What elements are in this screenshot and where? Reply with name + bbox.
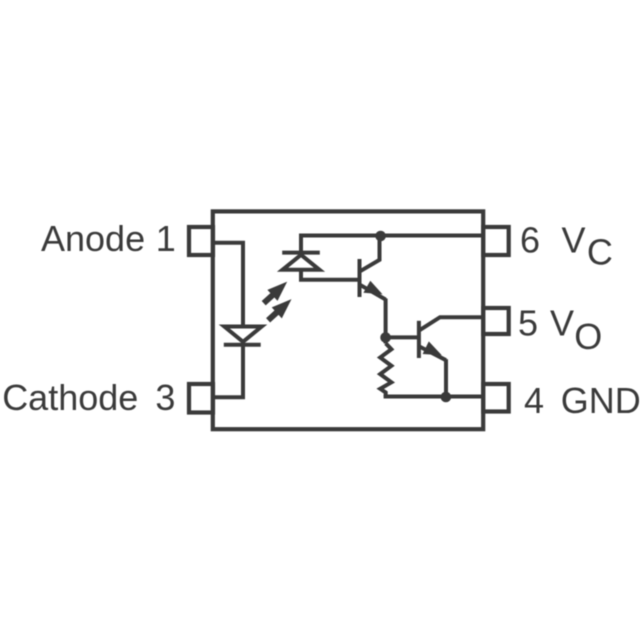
IC body outline — [213, 211, 483, 429]
wire: anode pin to LED anode — [213, 243, 243, 327]
svg-text:6: 6 — [520, 220, 540, 261]
pin 5 box (VO) — [483, 308, 509, 334]
light arrow 2 — [268, 299, 291, 320]
svg-text:5: 5 — [518, 302, 538, 343]
wire: Q2 emitter down to GND rail — [444, 359, 448, 396]
svg-text:V: V — [562, 220, 586, 261]
svg-text:O: O — [574, 316, 602, 357]
pin 1 box (anode) — [189, 227, 213, 255]
wire: photodiode anode to Q1 base — [301, 270, 358, 280]
wire: Q1 emitter down to node — [384, 299, 388, 344]
svg-text:C: C — [587, 232, 613, 273]
LED D1 (emitter diode) — [224, 327, 262, 345]
svg-text:V: V — [550, 302, 574, 343]
junction dot on GND rail — [441, 392, 452, 403]
svg-text:Anode: Anode — [41, 218, 145, 259]
junction dot on VC rail — [375, 231, 386, 242]
GND bottom rail wire — [384, 395, 483, 399]
photodiode D2 — [282, 253, 320, 270]
svg-text:3: 3 — [155, 377, 175, 418]
pin 6 box (VC) — [483, 227, 509, 255]
label 6 VC — [520, 220, 613, 273]
VC top rail wire — [301, 236, 483, 252]
svg-text:1: 1 — [156, 218, 176, 259]
light arrow 1 — [264, 282, 288, 304]
label 5 VO — [518, 302, 602, 357]
pin 3 box (cathode) — [189, 384, 213, 413]
transistor Q1 — [360, 236, 386, 300]
svg-text:4: 4 — [524, 380, 544, 421]
pin 4 box (GND) — [483, 384, 509, 412]
label Anode 1 — [41, 218, 176, 259]
resistor R1 — [380, 343, 391, 396]
wire: LED cathode to cathode pin — [213, 342, 243, 398]
svg-text:Cathode: Cathode — [2, 377, 138, 418]
wire: node to Q2 base — [386, 335, 417, 339]
label Cathode 3 — [2, 377, 175, 418]
svg-text:GND: GND — [561, 380, 640, 421]
label 4 GND — [524, 380, 640, 421]
transistor Q2 — [419, 317, 483, 360]
junction dot at Q1 emitter / resistor / Q2 base node — [380, 332, 391, 343]
